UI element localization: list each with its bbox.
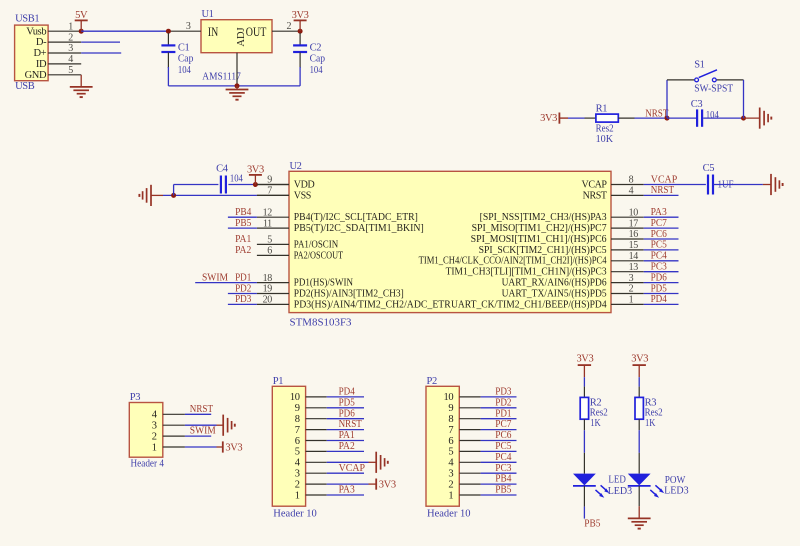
svg-text:Header 10: Header 10 [273,508,317,519]
svg-text:20: 20 [263,295,273,306]
svg-text:17: 17 [629,218,639,229]
svg-text:SWIM: SWIM [202,272,229,283]
svg-text:USB: USB [15,81,35,92]
svg-text:10: 10 [443,392,453,403]
svg-text:Cap: Cap [310,54,326,65]
svg-text:1K: 1K [590,418,601,429]
svg-text:PA2/OSCOUT: PA2/OSCOUT [294,250,343,261]
svg-text:C3: C3 [691,99,703,110]
svg-text:1: 1 [295,490,300,501]
svg-text:VCAP: VCAP [339,463,366,474]
svg-text:PD3: PD3 [235,294,251,305]
svg-text:9: 9 [295,403,300,414]
svg-text:3: 3 [295,469,300,480]
svg-text:P1: P1 [273,376,283,387]
svg-text:PC7: PC7 [651,218,667,229]
svg-text:19: 19 [263,284,273,295]
svg-text:3V3: 3V3 [576,354,593,365]
svg-text:SPI_MISO[TIM1_CH2]/(HS)PC7: SPI_MISO[TIM1_CH2]/(HS)PC7 [472,223,607,234]
svg-text:2: 2 [295,479,300,490]
svg-text:9: 9 [448,403,453,414]
svg-text:3: 3 [629,273,634,284]
svg-text:UART_CK/TIM2_CH1/BEEP/(HS)PD4: UART_CK/TIM2_CH1/BEEP/(HS)PD4 [451,299,607,310]
svg-text:PC3: PC3 [651,262,667,273]
svg-text:PC5: PC5 [651,240,667,251]
svg-text:PB5(T)/I2C_SDA[TIM1_BKIN]: PB5(T)/I2C_SDA[TIM1_BKIN] [294,223,424,234]
svg-text:5: 5 [68,65,73,76]
svg-text:C4: C4 [216,164,229,175]
svg-text:NRST: NRST [339,419,363,430]
svg-text:LED: LED [608,475,626,486]
svg-text:VDD: VDD [294,179,315,190]
svg-text:C2: C2 [310,42,322,53]
svg-text:104: 104 [706,110,720,121]
svg-text:104: 104 [230,173,244,184]
svg-text:PD5: PD5 [339,397,355,408]
svg-text:3: 3 [448,469,453,480]
svg-text:PC3: PC3 [495,463,511,474]
svg-text:5: 5 [295,447,300,458]
svg-text:4: 4 [629,186,634,197]
svg-text:2: 2 [287,21,292,32]
svg-text:LED3: LED3 [608,486,633,497]
svg-text:VSS: VSS [294,190,311,201]
svg-text:PD2: PD2 [495,397,511,408]
svg-text:NRST: NRST [583,190,607,201]
svg-text:GND: GND [25,70,47,81]
svg-text:PC6: PC6 [651,229,667,240]
svg-text:PD6: PD6 [339,408,355,419]
svg-text:12: 12 [263,207,273,218]
svg-text:PC6: PC6 [495,430,511,441]
svg-text:11: 11 [263,218,272,229]
svg-text:1: 1 [629,295,634,306]
svg-text:LED3: LED3 [664,485,689,496]
svg-text:D+: D+ [33,48,46,59]
svg-text:PB5: PB5 [584,518,600,529]
svg-text:PB5: PB5 [495,485,511,496]
svg-text:1: 1 [152,442,157,453]
svg-text:PD6: PD6 [651,272,667,283]
svg-text:TIM1_CH3[TLI][TIM1_CH1N]/(HS)P: TIM1_CH3[TLI][TIM1_CH1N]/(HS)PC3 [446,267,607,278]
svg-text:6: 6 [267,246,272,257]
svg-text:8: 8 [629,175,634,186]
svg-text:13: 13 [629,262,639,273]
svg-text:2: 2 [68,32,73,43]
svg-text:10: 10 [629,207,639,218]
svg-text:PD4: PD4 [651,294,668,305]
svg-text:VCAP: VCAP [582,179,608,190]
svg-text:3V3: 3V3 [247,164,264,175]
svg-text:3: 3 [68,43,73,54]
svg-text:PD2: PD2 [235,283,251,294]
svg-text:[SPI_NSS]TIM2_CH3/(HS)PA3: [SPI_NSS]TIM2_CH3/(HS)PA3 [480,212,607,223]
svg-text:S1: S1 [694,60,704,71]
svg-text:UART_RX/AIN6/(HS)PD6: UART_RX/AIN6/(HS)PD6 [502,278,607,289]
svg-text:SPI_MOSI[TIM1_CH1]/(HS)PC6: SPI_MOSI[TIM1_CH1]/(HS)PC6 [471,234,607,245]
svg-text:PA1: PA1 [339,430,355,441]
svg-text:VCAP: VCAP [651,174,678,185]
svg-text:D-: D- [36,37,47,48]
svg-text:ADJ: ADJ [236,27,247,46]
svg-text:2: 2 [629,284,634,295]
svg-text:14: 14 [629,251,639,262]
svg-text:P3: P3 [130,392,140,403]
svg-text:PB4: PB4 [495,474,512,485]
svg-text:PA3: PA3 [339,485,355,496]
svg-text:PD2(HS)/AIN3[TIM2_CH3]: PD2(HS)/AIN3[TIM2_CH3] [294,288,404,299]
svg-text:SPI_SCK[TIM2_CH1]/(HS)PC5: SPI_SCK[TIM2_CH1]/(HS)PC5 [479,245,607,256]
svg-text:C5: C5 [703,163,715,174]
svg-text:6: 6 [295,436,300,447]
svg-text:PB4: PB4 [235,207,252,218]
svg-text:PD5: PD5 [651,283,667,294]
svg-text:AMS1117: AMS1117 [202,71,241,82]
svg-text:18: 18 [263,273,273,284]
svg-text:PC7: PC7 [495,419,511,430]
svg-text:7: 7 [295,425,300,436]
svg-text:4: 4 [68,54,73,65]
svg-text:PC4: PC4 [495,452,512,463]
svg-text:1: 1 [68,21,73,32]
svg-text:PD1: PD1 [235,272,251,283]
svg-text:8: 8 [295,414,300,425]
svg-text:NRST: NRST [190,404,214,415]
svg-text:7: 7 [448,425,453,436]
svg-text:OUT: OUT [246,25,267,39]
svg-text:PC5: PC5 [495,441,511,452]
svg-text:Header 10: Header 10 [427,508,471,519]
svg-text:PB5: PB5 [235,218,251,229]
svg-text:Header 4: Header 4 [131,459,165,470]
svg-text:PD1: PD1 [495,408,511,419]
svg-text:3V3: 3V3 [292,10,309,21]
svg-text:PD3: PD3 [495,387,511,398]
svg-text:5: 5 [448,447,453,458]
svg-text:P2: P2 [427,376,437,387]
svg-text:NRST: NRST [651,185,675,196]
svg-text:SWIM: SWIM [190,426,217,437]
svg-text:U2: U2 [290,161,302,172]
svg-text:PA2: PA2 [339,441,355,452]
svg-text:3V3: 3V3 [631,354,648,365]
svg-text:PC4: PC4 [651,251,668,262]
svg-text:Cap: Cap [178,54,194,65]
svg-text:3V3: 3V3 [379,479,396,490]
svg-text:1: 1 [448,490,453,501]
svg-text:15: 15 [629,240,639,251]
svg-text:TIM1_CH4/CLK_CCO/AIN2[TIM1_CH2: TIM1_CH4/CLK_CCO/AIN2[TIM1_CH2I]/(HS)PC4 [419,256,607,267]
svg-text:3V3: 3V3 [540,113,557,124]
svg-text:PD4: PD4 [339,387,356,398]
svg-text:6: 6 [448,436,453,447]
svg-text:PB4(T)/I2C_SCL[TADC_ETR]: PB4(T)/I2C_SCL[TADC_ETR] [294,212,418,223]
svg-text:5: 5 [267,235,272,246]
svg-text:Vusb: Vusb [26,26,46,37]
svg-text:IN: IN [208,25,218,39]
svg-text:PD3(HS)/AIN4/TIM2_CH2/ADC_ETR: PD3(HS)/AIN4/TIM2_CH2/ADC_ETR [294,299,451,310]
svg-text:10K: 10K [596,134,614,145]
svg-text:U1: U1 [202,9,214,20]
svg-text:STM8S103F3: STM8S103F3 [290,318,352,329]
svg-text:C1: C1 [178,42,190,53]
svg-text:PA1: PA1 [235,234,251,245]
svg-text:104: 104 [178,65,192,76]
svg-text:2: 2 [152,431,157,442]
svg-text:10: 10 [290,392,300,403]
svg-text:R1: R1 [596,103,608,114]
svg-text:2: 2 [448,479,453,490]
svg-text:3: 3 [152,421,157,432]
svg-text:USB1: USB1 [15,14,39,25]
svg-text:ID: ID [36,59,47,70]
svg-text:5V: 5V [75,10,88,21]
svg-text:PA3: PA3 [651,207,667,218]
svg-text:PA1/OSCIN: PA1/OSCIN [294,239,338,250]
svg-text:16: 16 [629,229,639,240]
svg-text:PD1(HS)/SWIN: PD1(HS)/SWIN [294,278,353,289]
svg-text:SW-SPST: SW-SPST [694,83,734,94]
svg-text:3: 3 [186,21,191,32]
svg-text:3V3: 3V3 [225,442,242,453]
svg-text:8: 8 [448,414,453,425]
svg-text:POW: POW [665,475,686,486]
svg-text:UART_TX/AIN5/(HS)PD5: UART_TX/AIN5/(HS)PD5 [502,288,607,299]
svg-text:PA2: PA2 [235,245,251,256]
svg-text:104: 104 [310,65,324,76]
svg-text:1K: 1K [645,418,656,429]
